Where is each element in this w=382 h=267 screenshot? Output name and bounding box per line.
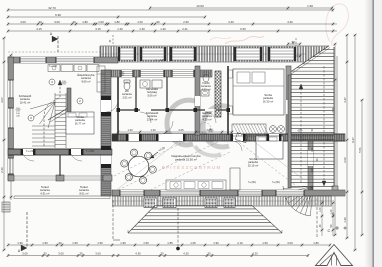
svg-text:1.80: 1.80 xyxy=(82,20,88,24)
svg-text:3.00: 3.00 xyxy=(287,241,293,245)
svg-text:2.40: 2.40 xyxy=(0,167,4,173)
svg-text:3.00: 3.00 xyxy=(22,251,28,255)
svg-text:4.07: 4.07 xyxy=(0,97,4,103)
svg-text:1.40: 1.40 xyxy=(330,209,333,214)
svg-text:parketta 32.50 m²: parketta 32.50 m² xyxy=(175,157,197,161)
svg-text:1.40: 1.40 xyxy=(319,207,322,212)
svg-text:3.47: 3.47 xyxy=(343,97,347,103)
svg-text:2.01 m²: 2.01 m² xyxy=(122,95,131,99)
svg-text:3.00: 3.00 xyxy=(95,251,101,255)
svg-text:h +1.50: h +1.50 xyxy=(26,150,35,153)
svg-text:9.37: 9.37 xyxy=(351,137,355,143)
svg-text:1.50: 1.50 xyxy=(72,241,78,245)
svg-text:2.10: 2.10 xyxy=(237,241,243,245)
svg-text:30: 30 xyxy=(38,20,42,24)
svg-text:1.50: 1.50 xyxy=(143,241,149,245)
svg-text:6.90: 6.90 xyxy=(55,13,61,17)
svg-text:1.85: 1.85 xyxy=(167,241,173,245)
svg-text:30: 30 xyxy=(72,20,76,24)
svg-text:30: 30 xyxy=(43,251,47,255)
svg-text:3.00: 3.00 xyxy=(54,20,60,24)
svg-text:1.80: 1.80 xyxy=(114,20,120,24)
svg-text:C: C xyxy=(328,228,331,233)
svg-text:2.41: 2.41 xyxy=(182,27,188,31)
svg-text:180: 180 xyxy=(311,147,314,152)
svg-text:30: 30 xyxy=(58,241,62,245)
svg-text:3.00: 3.00 xyxy=(20,20,26,24)
svg-text:16.77 m²: 16.77 m² xyxy=(75,121,86,125)
svg-text:15.15 m²: 15.15 m² xyxy=(248,163,259,167)
svg-text:1.00: 1.00 xyxy=(98,20,104,24)
svg-text:4.50 m²: 4.50 m² xyxy=(201,87,210,91)
svg-text:h + 2.00: h + 2.00 xyxy=(156,59,165,62)
svg-text:1.50: 1.50 xyxy=(42,241,48,245)
svg-text:9.06 m²: 9.06 m² xyxy=(81,79,90,83)
svg-text:1.30: 1.30 xyxy=(127,128,133,132)
svg-text:4.40: 4.40 xyxy=(287,20,293,24)
svg-text:h +(90): h +(90) xyxy=(248,181,256,184)
svg-text:1.50: 1.50 xyxy=(307,4,313,8)
svg-text:32.70: 32.70 xyxy=(48,6,56,10)
svg-text:6.91 m²: 6.91 m² xyxy=(40,191,49,195)
svg-text:1.50: 1.50 xyxy=(97,241,103,245)
svg-text:1.30: 1.30 xyxy=(150,128,156,132)
svg-text:1.00: 1.00 xyxy=(137,20,143,24)
svg-text:13.84 m²: 13.84 m² xyxy=(147,117,158,121)
svg-text:1.20: 1.20 xyxy=(160,27,166,31)
svg-text:2.60: 2.60 xyxy=(183,20,189,24)
svg-text:30: 30 xyxy=(207,251,211,255)
svg-text:1.90: 1.90 xyxy=(120,241,126,245)
svg-text:3.15: 3.15 xyxy=(36,27,42,31)
svg-text:13.00: 13.00 xyxy=(196,4,204,8)
svg-text:30: 30 xyxy=(160,251,164,255)
svg-text:16.30 m²: 16.30 m² xyxy=(263,99,274,103)
svg-text:2.05: 2.05 xyxy=(178,128,184,132)
svg-text:180: 180 xyxy=(311,167,314,172)
svg-text:1.40: 1.40 xyxy=(343,217,347,223)
svg-text:4.20: 4.20 xyxy=(183,251,189,255)
svg-text:8.01 m²: 8.01 m² xyxy=(79,191,88,195)
svg-text:h +(90): h +(90) xyxy=(272,181,280,184)
svg-text:4.30 m²: 4.30 m² xyxy=(202,117,211,121)
svg-text:3.15: 3.15 xyxy=(95,27,101,31)
svg-text:5.06 m²: 5.06 m² xyxy=(147,93,156,97)
svg-text:5.51: 5.51 xyxy=(358,147,362,153)
svg-text:1.20: 1.20 xyxy=(117,27,123,31)
svg-text:h +1.50: h +1.50 xyxy=(86,150,95,153)
svg-text:1.90: 1.90 xyxy=(213,241,219,245)
svg-text:É P Í T É S Z C E N T R U M: É P Í T É S Z C E N T R U M xyxy=(162,163,221,170)
svg-text:4.30: 4.30 xyxy=(135,251,141,255)
svg-text:1.90: 1.90 xyxy=(17,241,23,245)
svg-text:2.02: 2.02 xyxy=(343,157,347,163)
svg-text:4.40: 4.40 xyxy=(228,20,234,24)
svg-text:10.41 m²: 10.41 m² xyxy=(20,100,31,104)
svg-text:3.00: 3.00 xyxy=(58,251,64,255)
svg-text:6.50: 6.50 xyxy=(240,27,246,31)
svg-text:1.50: 1.50 xyxy=(262,241,268,245)
svg-text:1.80: 1.80 xyxy=(313,241,319,245)
svg-text:90: 90 xyxy=(156,20,160,24)
svg-text:30: 30 xyxy=(79,251,83,255)
svg-text:h +1.00: h +1.00 xyxy=(49,65,58,68)
svg-text:1.30: 1.30 xyxy=(139,27,145,31)
svg-text:4.20: 4.20 xyxy=(252,251,258,255)
svg-text:1.05: 1.05 xyxy=(190,241,196,245)
